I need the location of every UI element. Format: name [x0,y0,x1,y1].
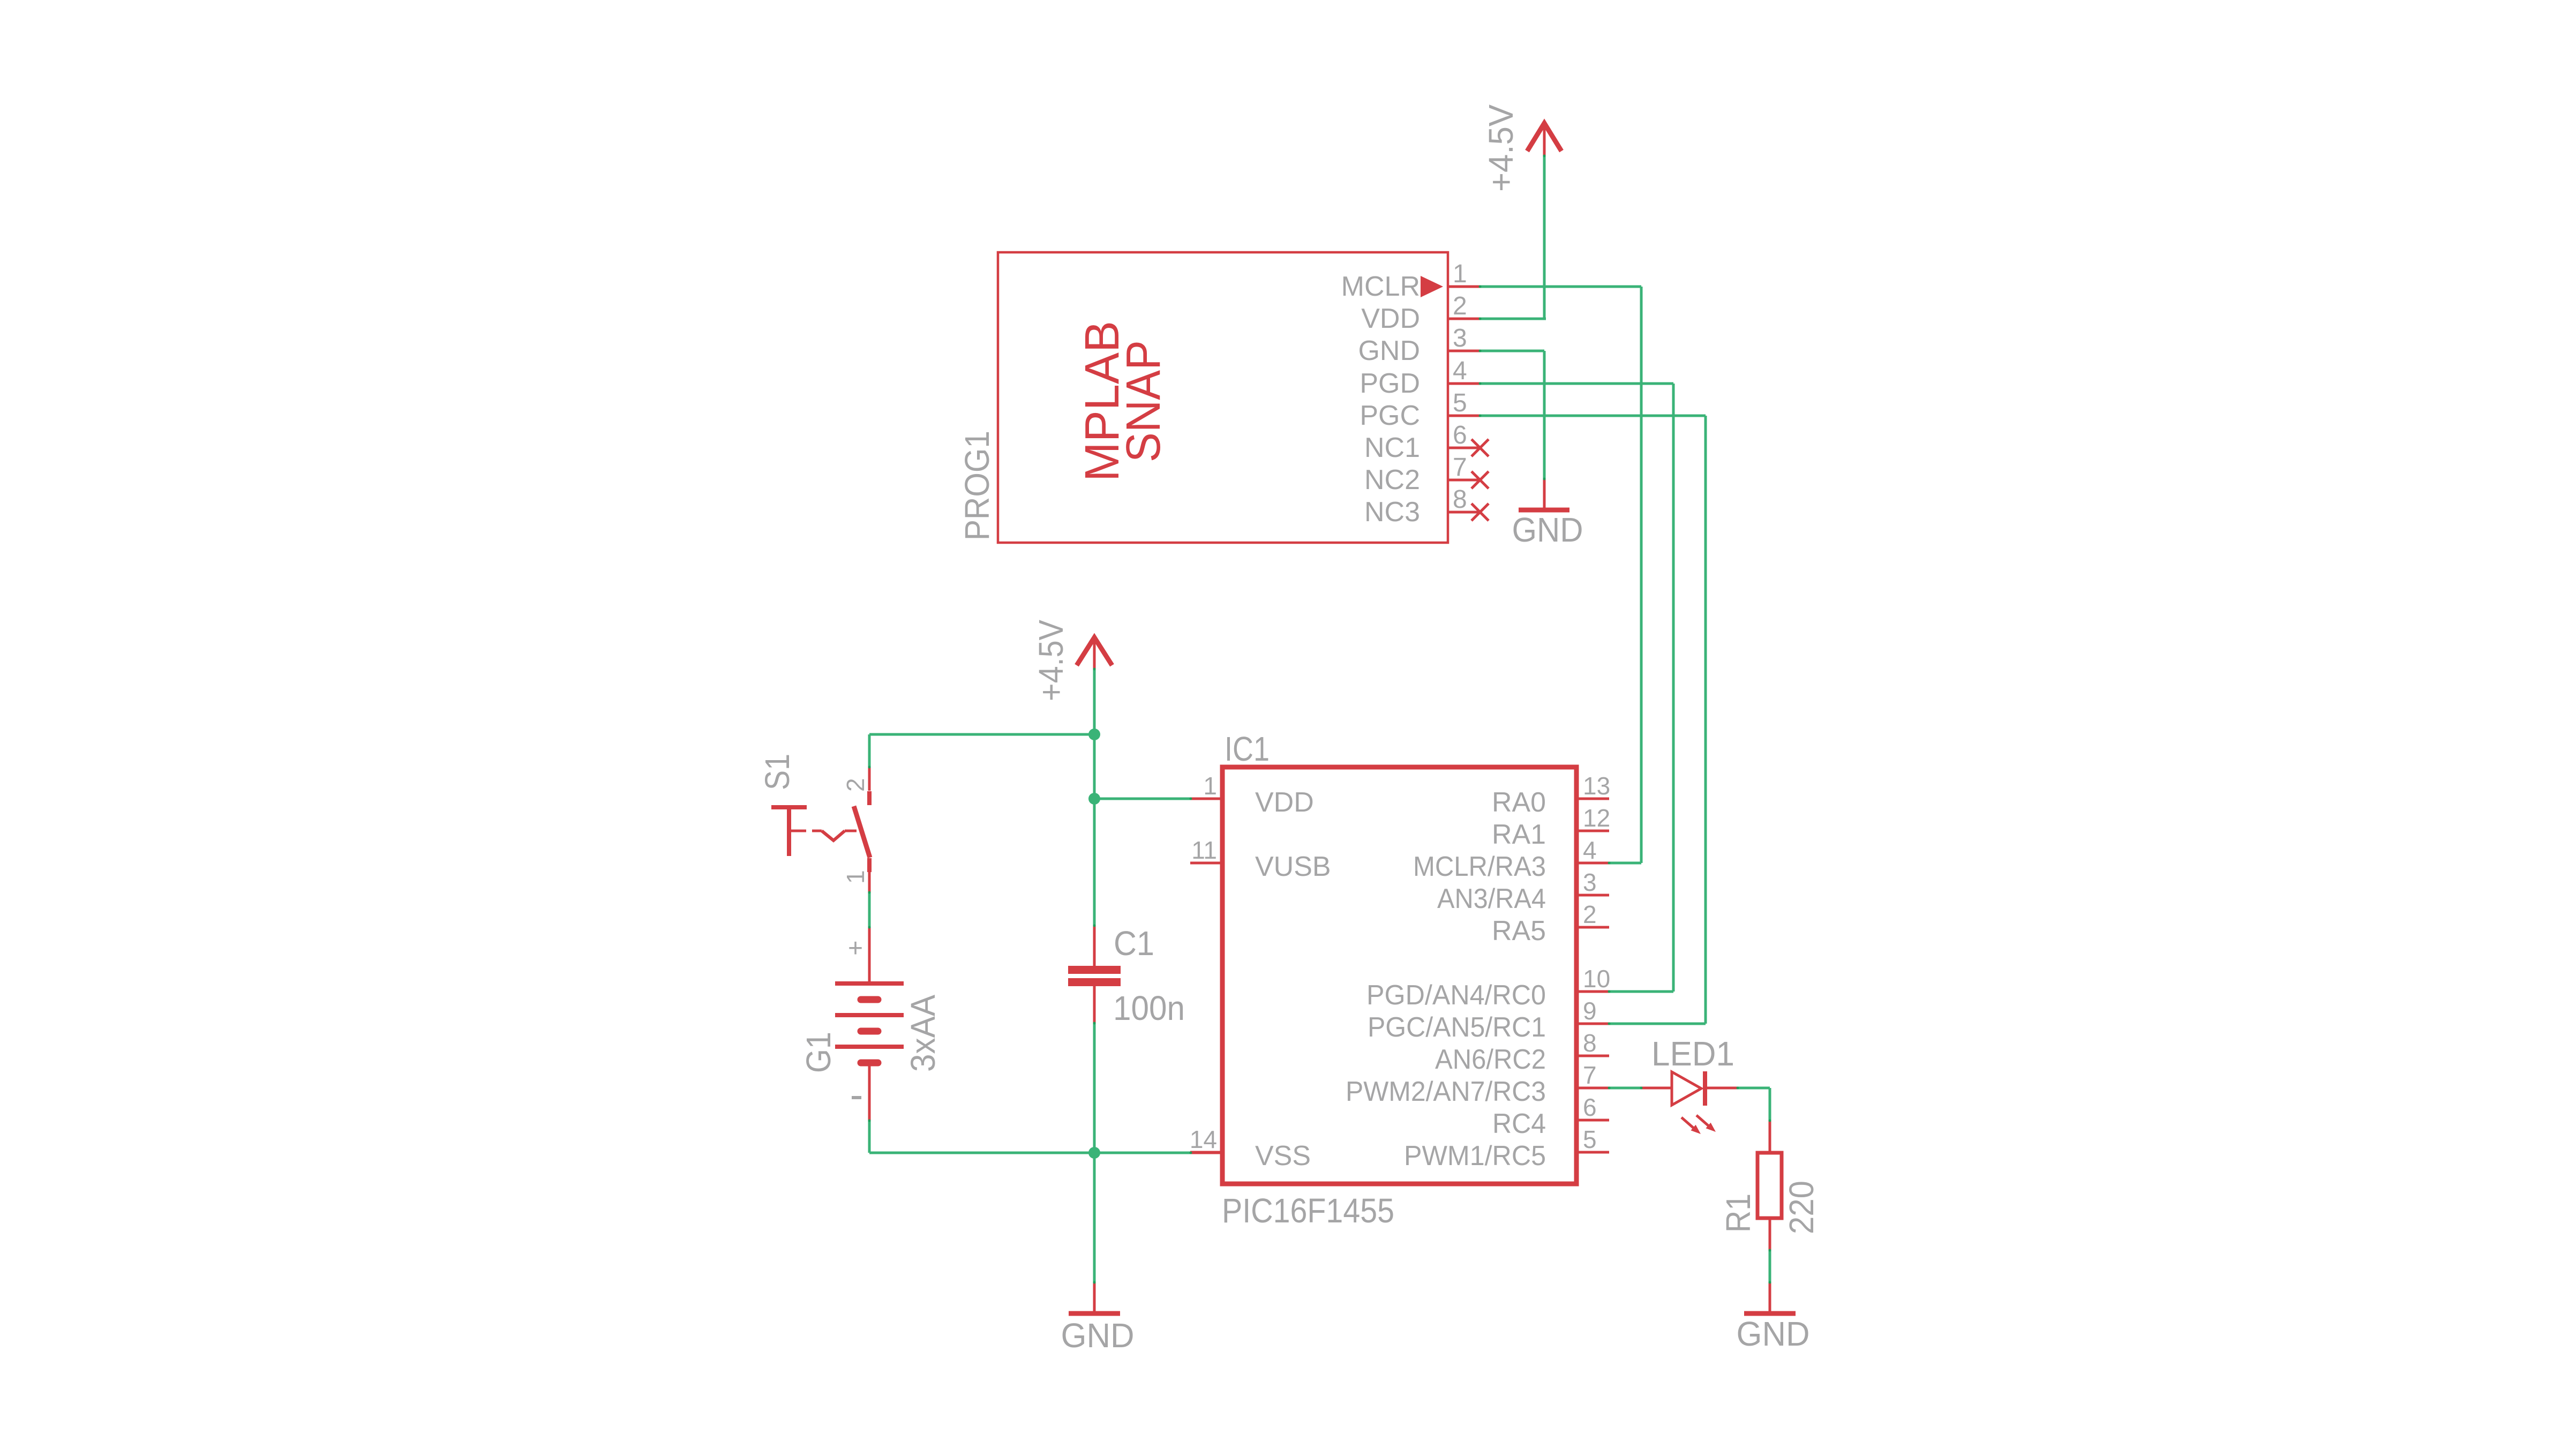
svg-text:10: 10 [1583,965,1610,993]
wire PGD into IC1 pin10 stub [1609,990,1673,993]
svg-text:PGC/AN5/RC1: PGC/AN5/RC1 [1368,1012,1546,1043]
resistor R1 220 [1719,1121,1821,1250]
supply +4.5V arrow (battery net) [1032,620,1112,701]
svg-text:2: 2 [1453,292,1467,320]
svg-text:PGC: PGC [1360,400,1420,431]
svg-text:+: + [848,934,863,963]
svg-text:+4.5V: +4.5V [1032,620,1070,701]
microcontroller IC1 PIC16F1455 [1222,730,1576,1230]
svg-text:PROG1: PROG1 [958,431,996,540]
IC1 pin 4 MCLR/RA3 [1413,836,1609,882]
IC1 pin 13 RA0 [1492,772,1610,818]
IC1 pin 7 PWM2/AN7/RC3 [1346,1061,1609,1107]
IC1 pin 6 RC4 [1492,1093,1609,1139]
programmer PROG1 MPLAB SNAP [958,252,1448,543]
svg-text:4: 4 [1583,836,1597,864]
svg-text:GND: GND [1358,335,1420,366]
svg-text:100n: 100n [1113,989,1185,1027]
wire PROG1 pin3 GND horizontal [1480,350,1544,352]
wire S1 pin1 to G1 + [868,892,871,927]
svg-text:RA5: RA5 [1492,915,1546,947]
wire +4.5V drop to top rail [1093,669,1096,734]
svg-text:7: 7 [1583,1061,1597,1089]
wire GND vertical to ground symbol [1543,351,1546,479]
junction node (bottom rail) [1088,1147,1100,1159]
wire down to C1 [1093,799,1096,926]
svg-text:RA0: RA0 [1492,787,1546,818]
PROG1 pin 1 MCLR [1341,260,1480,302]
svg-text:AN6/RC2: AN6/RC2 [1435,1044,1546,1075]
wire MCLR into IC1 pin4 stub [1609,862,1641,865]
svg-text:1: 1 [842,870,869,884]
IC1 pin 10 PGD/AN4/RC0 [1366,965,1610,1011]
wire C1 to bottom rail [1093,1023,1096,1153]
svg-text:4: 4 [1453,357,1467,385]
wire top rail to switch [869,733,1094,736]
svg-text:RC4: RC4 [1492,1108,1546,1139]
svg-text:S1: S1 [758,754,797,790]
IC1 pin1 stub [1191,798,1222,800]
svg-text:GND: GND [1737,1315,1810,1353]
svg-text:3: 3 [1583,868,1597,896]
svg-text:G1: G1 [799,1032,838,1073]
svg-text:GND: GND [1512,510,1583,549]
PROG1 pin 5 PGC [1360,389,1480,431]
svg-text:SNAP: SNAP [1117,340,1170,462]
PROG1 pin 6 NC1 [1364,421,1489,463]
capacitor C1 100n [1068,924,1185,1027]
svg-text:LED1: LED1 [1651,1034,1734,1073]
IC1 pin 9 PGC/AN5/RC1 [1368,997,1609,1043]
svg-text:VUSB: VUSB [1255,851,1331,882]
svg-text:2: 2 [1583,900,1597,928]
svg-text:2: 2 [842,778,869,792]
wire IC1 pin7 to LED1 [1609,1087,1641,1090]
svg-text:NC2: NC2 [1364,464,1420,495]
svg-text:PGD: PGD [1360,368,1420,399]
PROG1 pin 4 PGD [1360,357,1480,399]
IC1 pin 8 AN6/RC2 [1435,1029,1609,1075]
svg-text:AN3/RA4: AN3/RA4 [1437,883,1546,914]
junction node (rail/S1) [1088,729,1100,740]
wire LED1 cathode [1738,1087,1770,1090]
wire PROG1 pin1 MCLR horizontal [1480,286,1641,288]
IC1 pin14 stub [1191,1152,1222,1154]
ground GND (PROG1) [1512,479,1583,549]
wire PGC vertical down to IC1 pin9 [1704,416,1707,1024]
svg-text:VDD: VDD [1255,787,1314,818]
IC1 pin 1 VDD [1190,772,1314,818]
IC1 pin 12 RA1 [1492,804,1610,850]
svg-text:VDD: VDD [1361,303,1420,334]
battery G1 3xAA [799,927,942,1121]
wire bottom rail to ground [1093,1153,1096,1282]
wire down to S1 pin2 [868,734,871,767]
wire MCLR vertical down to IC1 pin4 [1640,287,1643,863]
svg-text:13: 13 [1583,772,1610,800]
svg-text:+4.5V: +4.5V [1482,104,1520,192]
svg-text:3: 3 [1453,324,1467,352]
wire PGD vertical down to IC1 pin10 [1672,384,1675,992]
svg-text:PWM2/AN7/RC3: PWM2/AN7/RC3 [1346,1076,1546,1107]
svg-text:IC1: IC1 [1225,730,1270,768]
svg-text:220: 220 [1782,1181,1821,1234]
wire bottom rail [869,1152,1191,1154]
svg-text:11: 11 [1191,836,1217,864]
svg-text:MCLR: MCLR [1341,271,1420,302]
svg-text:NC1: NC1 [1364,432,1420,463]
svg-text:5: 5 [1583,1125,1597,1153]
svg-text:8: 8 [1583,1029,1597,1057]
svg-text:9: 9 [1583,997,1597,1025]
supply +4.5V arrow (top) [1482,104,1561,192]
ground GND (R1) [1737,1282,1810,1353]
svg-text:5: 5 [1453,389,1467,417]
svg-text:PGD/AN4/RC0: PGD/AN4/RC0 [1366,980,1546,1011]
IC1 pin 14 VSS [1190,1125,1311,1172]
svg-text:R1: R1 [1719,1193,1758,1233]
svg-text:8: 8 [1453,485,1467,514]
svg-text:3xAA: 3xAA [904,995,942,1072]
wire PGC into IC1 pin9 stub [1609,1023,1706,1025]
wire rail down to IC1 pin1 row [1093,734,1096,799]
IC1 pin 3 AN3/RA4 [1437,868,1609,914]
wire down to R1 [1769,1088,1771,1121]
PROG1 pin 3 GND [1358,324,1480,366]
svg-text:PWM1/RC5: PWM1/RC5 [1404,1140,1546,1172]
svg-text:7: 7 [1453,453,1467,482]
wire +4.5V vertical to PROG1 pin2 [1543,156,1546,319]
junction node (IC1 VDD) [1088,793,1100,805]
svg-text:VSS: VSS [1255,1140,1311,1172]
PROG1 pin 7 NC2 [1364,453,1489,495]
svg-text:PIC16F1455: PIC16F1455 [1222,1191,1394,1230]
svg-text:C1: C1 [1114,924,1154,963]
svg-text:GND: GND [1061,1316,1135,1355]
svg-text:RA1: RA1 [1492,819,1546,850]
svg-text:12: 12 [1583,804,1610,832]
wire to IC1 pin1 VDD [1094,798,1191,800]
switch S1 [758,754,870,892]
svg-text:6: 6 [1453,421,1467,449]
PROG1 pin 2 VDD [1361,292,1480,334]
IC1 pin 2 RA5 [1492,900,1609,947]
svg-text:14: 14 [1190,1125,1217,1153]
svg-text:MCLR/RA3: MCLR/RA3 [1413,851,1546,882]
LED LED1 [1641,1034,1738,1134]
IC1 pin 11 VUSB [1190,836,1331,882]
svg-text:NC3: NC3 [1364,497,1420,528]
wire G1 - to bottom rail [868,1121,871,1153]
IC1 pin 5 PWM1/RC5 [1404,1125,1609,1172]
svg-text:6: 6 [1583,1093,1597,1121]
PROG1 pin 8 NC3 [1364,485,1489,528]
wire R1 to ground [1769,1250,1771,1282]
wire PROG1 pin4 PGD horizontal [1480,382,1673,385]
pin connection dots [868,155,1771,1284]
ground GND (battery net) [1061,1282,1135,1355]
wire PROG1 pin5 PGC horizontal [1480,415,1706,417]
svg-text:1: 1 [1203,772,1217,800]
svg-text:1: 1 [1453,260,1467,288]
wire PROG1 pin2 VDD horizontal [1480,318,1546,320]
